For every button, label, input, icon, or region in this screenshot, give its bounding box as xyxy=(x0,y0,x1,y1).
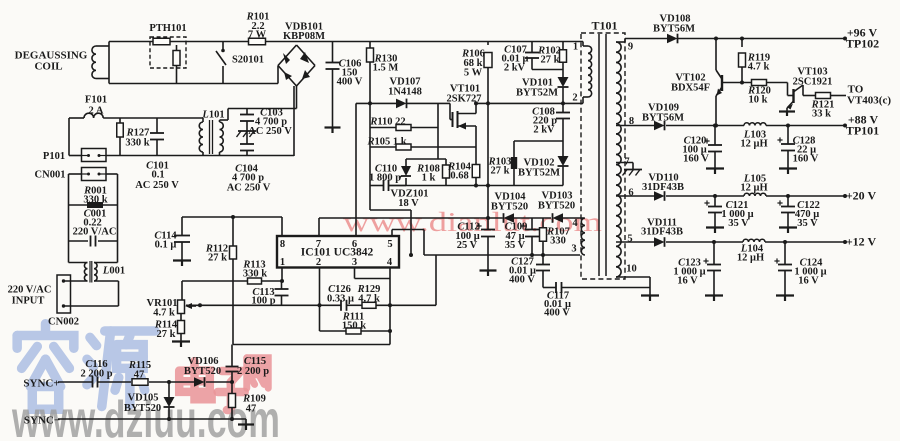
wire L001 bottom-left to CN002 xyxy=(64,280,88,282)
transformer pin9 lead xyxy=(616,41,625,43)
svg-text:330: 330 xyxy=(550,236,566,247)
svg-text:INPUT: INPUT xyxy=(12,296,45,307)
resistor R102 xyxy=(562,42,564,51)
resistor R115 xyxy=(132,379,148,386)
svg-text:BYT56M: BYT56M xyxy=(653,24,695,35)
diode VD103 xyxy=(553,213,564,223)
wire C127 to gnd line xyxy=(543,287,556,289)
svg-text:10: 10 xyxy=(626,264,637,275)
wire C001 to L001 right xyxy=(117,241,119,263)
capacitor C108 xyxy=(562,103,564,112)
svg-text:4: 4 xyxy=(572,218,578,229)
capacitor C127 xyxy=(542,255,544,265)
mosfet VT101 xyxy=(449,103,451,119)
wire to VT403 xyxy=(803,95,816,97)
svg-text:27 k: 27 k xyxy=(491,166,510,177)
resistor R121 xyxy=(816,93,831,99)
diode VD104 xyxy=(504,213,515,223)
svg-text:16 V: 16 V xyxy=(677,276,698,287)
wire R111 box xyxy=(320,330,347,332)
connector P101 xyxy=(82,149,107,162)
degaussing coil xyxy=(92,46,96,79)
diode VD102 xyxy=(562,141,564,156)
svg-text:P101: P101 xyxy=(43,151,65,162)
wire source rail xyxy=(389,185,564,187)
svg-text:7: 7 xyxy=(624,157,629,168)
wire bridge bottom xyxy=(296,86,298,109)
transformer pin7 lead xyxy=(616,162,633,164)
wire pin5 jog xyxy=(391,230,393,237)
wire VD107 line xyxy=(356,102,396,104)
transformer L001 xyxy=(84,263,87,282)
svg-text:6: 6 xyxy=(352,239,357,250)
wire CN001 right xyxy=(106,173,118,175)
svg-text:18 V: 18 V xyxy=(398,198,419,209)
svg-text:5: 5 xyxy=(387,239,392,250)
wire P101 left lead xyxy=(69,155,82,157)
capacitor C126 xyxy=(340,300,342,311)
svg-text:BYT520: BYT520 xyxy=(184,366,221,377)
connector CN002 xyxy=(57,275,71,313)
inductor L103 xyxy=(744,123,766,126)
svg-text:1: 1 xyxy=(573,42,578,53)
svg-text:AC 250 V: AC 250 V xyxy=(227,183,271,194)
wire sync minus line xyxy=(58,418,246,420)
capacitor C123 xyxy=(713,242,715,265)
wire +96 rail xyxy=(625,38,667,40)
svg-text:KBP08M: KBP08M xyxy=(283,31,325,42)
svg-text:BYT52M: BYT52M xyxy=(518,168,560,179)
svg-text:AC 250 V: AC 250 V xyxy=(135,180,179,191)
resistor R001 xyxy=(69,204,118,206)
watermark dian pink xyxy=(179,361,211,399)
wire C001 to L001 left xyxy=(68,241,70,263)
capacitor C116 xyxy=(92,377,94,388)
svg-text:CN002: CN002 xyxy=(48,317,79,328)
svg-text:5 W: 5 W xyxy=(464,68,483,79)
resistor R103 xyxy=(513,141,515,157)
svg-text:COIL: COIL xyxy=(34,61,62,73)
svg-text:CN001: CN001 xyxy=(35,170,66,181)
wire +12 rail xyxy=(616,241,654,243)
capacitor C112 xyxy=(486,216,490,220)
svg-text:9: 9 xyxy=(628,42,633,53)
svg-text:10 k: 10 k xyxy=(749,95,768,106)
svg-text:35 V: 35 V xyxy=(728,218,749,229)
capacitor C107 xyxy=(531,42,533,53)
choke L101 xyxy=(199,122,203,152)
svg-text:4.7 k: 4.7 k xyxy=(748,62,770,73)
transformer core xyxy=(598,34,600,276)
wire bridge left vertex xyxy=(277,66,279,84)
resistor R105 xyxy=(370,146,396,148)
svg-text:1: 1 xyxy=(280,257,285,268)
box around VDZ101 R108 xyxy=(406,158,446,160)
svg-text:2: 2 xyxy=(316,257,321,268)
capacitor C122 xyxy=(787,196,789,207)
wire R113 line xyxy=(182,280,248,282)
resistor R127 xyxy=(119,118,121,123)
wire +88 rail xyxy=(616,125,654,127)
transformer T101 dashed box xyxy=(581,33,625,279)
wire gate node vertical xyxy=(437,103,439,159)
svg-text:8: 8 xyxy=(280,239,285,250)
ic U1 IC101 UC3842 box xyxy=(277,236,399,268)
svg-text:31DF43B: 31DF43B xyxy=(642,182,684,193)
svg-text:VD105: VD105 xyxy=(128,393,159,404)
capacitor C109 xyxy=(531,218,533,230)
svg-text:400 V: 400 V xyxy=(337,77,363,88)
ground VT103 emitter xyxy=(779,110,795,112)
wire L001 bottom-right loop xyxy=(94,280,119,282)
wire pin4 lead xyxy=(389,268,391,345)
capacitor C114 xyxy=(181,217,183,236)
capacitor C106 xyxy=(332,42,334,63)
svg-text:BYT520: BYT520 xyxy=(491,202,528,213)
resistor R114 xyxy=(180,314,182,321)
diode VD109 xyxy=(654,121,665,131)
svg-text:35 V: 35 V xyxy=(797,218,818,229)
svg-text:0.68: 0.68 xyxy=(450,171,468,182)
svg-text:2 200 p: 2 200 p xyxy=(80,369,112,380)
capacitor C120 xyxy=(714,126,716,146)
svg-text:3: 3 xyxy=(571,244,576,255)
svg-text:27 k: 27 k xyxy=(208,253,227,264)
svg-text:2: 2 xyxy=(572,93,577,104)
transistor VT102 xyxy=(715,39,717,71)
wire bottom AC rail xyxy=(109,83,278,85)
transformer feedback winding xyxy=(581,218,585,255)
wire VDZ bottom link xyxy=(370,209,411,211)
wire snubber bottom xyxy=(532,69,563,71)
watermark wang pink xyxy=(247,358,268,388)
wire feedback line xyxy=(186,304,341,306)
svg-text:VT403(c): VT403(c) xyxy=(847,95,891,107)
svg-text:27 k: 27 k xyxy=(157,329,176,340)
diode VD111 xyxy=(654,237,665,247)
wire drain to pin2 xyxy=(476,102,583,104)
svg-text:1 k: 1 k xyxy=(422,173,436,184)
svg-text:S20101: S20101 xyxy=(232,55,264,66)
resistor R111 xyxy=(346,328,361,334)
svg-text:1.5 M: 1.5 M xyxy=(373,63,399,74)
inductor L105 xyxy=(744,193,766,196)
capacitor C113 xyxy=(281,281,283,289)
thermistor PTH101 xyxy=(150,37,186,68)
wire CN001 left xyxy=(69,173,82,175)
capacitor C104 xyxy=(240,143,254,145)
svg-text:TP101: TP101 xyxy=(846,124,879,138)
svg-text:0.1 μ: 0.1 μ xyxy=(155,240,177,251)
resistor R129 xyxy=(362,302,376,308)
chassis ground between C103 C104 xyxy=(238,130,256,132)
potentiometer VR101 xyxy=(181,281,183,300)
svg-text:BDX54F: BDX54F xyxy=(671,83,710,94)
svg-text:2 kV: 2 kV xyxy=(504,63,526,74)
svg-text:1N4148: 1N4148 xyxy=(388,87,422,98)
svg-text:400 V: 400 V xyxy=(509,275,535,286)
wire sync plus line xyxy=(58,381,93,383)
wire node to IC pin6 xyxy=(355,103,357,236)
transformer secondary winding xyxy=(616,42,621,277)
wire trafo pin3 line xyxy=(424,254,580,256)
svg-text:31DF43B: 31DF43B xyxy=(641,227,683,238)
svg-text:BYT56M: BYT56M xyxy=(642,113,684,124)
svg-text:L001: L001 xyxy=(102,266,125,277)
svg-text:0.1: 0.1 xyxy=(151,170,164,181)
capacitor C001 xyxy=(69,240,89,242)
diode VD107 xyxy=(396,99,407,109)
resistor R130 xyxy=(369,42,371,49)
resistor R120 xyxy=(752,80,767,86)
svg-text:4.7 k: 4.7 k xyxy=(153,308,175,319)
wire vcc top line xyxy=(182,216,282,218)
connector CN001 xyxy=(82,168,107,181)
wire fuse line xyxy=(69,117,84,119)
svg-text:SYNC+: SYNC+ xyxy=(23,378,59,390)
resistor R106 xyxy=(487,42,489,46)
wire long mid line xyxy=(233,344,390,346)
wire feedback rectifier line xyxy=(319,217,503,219)
wire fuse to P101 xyxy=(68,118,70,156)
svg-text:5: 5 xyxy=(627,234,632,245)
svg-text:12 μH: 12 μH xyxy=(737,253,764,264)
svg-text:TP102: TP102 xyxy=(846,37,879,51)
svg-text:IC101 UC3842: IC101 UC3842 xyxy=(301,247,374,259)
capacitor C103 xyxy=(246,109,248,115)
bridge VDB101 xyxy=(278,45,297,66)
svg-text:SYNC−: SYNC− xyxy=(24,415,60,427)
wire pin7 lead xyxy=(318,218,320,236)
svg-text:1 800 p: 1 800 p xyxy=(369,173,401,184)
fuse F101 xyxy=(84,113,103,118)
resistor R110 xyxy=(370,127,396,129)
resistor R101 xyxy=(249,38,266,45)
resistor R108 xyxy=(443,165,450,178)
resistor R104 xyxy=(472,165,480,178)
svg-text:12 μH: 12 μH xyxy=(740,183,767,194)
zener VDZ101 xyxy=(401,166,411,176)
wire pin3 lead xyxy=(354,268,356,279)
watermark yuan blue xyxy=(87,331,155,407)
svg-text:+12 V: +12 V xyxy=(846,235,877,249)
svg-text:33 k: 33 k xyxy=(812,109,831,120)
resistor R107 xyxy=(542,218,544,228)
capacitor C101 xyxy=(156,118,158,133)
wire top AC rail xyxy=(109,41,583,43)
svg-text:6: 6 xyxy=(628,188,633,199)
wire lower AC line xyxy=(106,155,294,157)
transformer primary winding xyxy=(582,42,584,47)
svg-text:35 V: 35 V xyxy=(505,240,526,251)
transformer pin10 lead xyxy=(616,276,650,278)
svg-text:PTH101: PTH101 xyxy=(149,23,186,34)
svg-text:F101: F101 xyxy=(85,95,107,106)
svg-text:220 V/AC: 220 V/AC xyxy=(73,227,117,238)
wire L101 to bridge xyxy=(228,108,294,110)
svg-text:4: 4 xyxy=(387,257,393,268)
diode VD105 xyxy=(168,382,170,397)
resistor R119 xyxy=(741,39,743,48)
resistor R109 xyxy=(231,382,233,393)
svg-text:BYT52M: BYT52M xyxy=(516,88,558,99)
wire +20 rail xyxy=(616,195,654,197)
box R103 VD102 top xyxy=(514,140,563,142)
watermark rong blue xyxy=(17,324,74,410)
svg-text:2SC1921: 2SC1921 xyxy=(793,77,833,88)
diode VD108 xyxy=(667,34,678,44)
ground sync minus xyxy=(245,419,247,424)
svg-text:BYT520: BYT520 xyxy=(538,201,575,212)
diode VD101 xyxy=(562,70,564,78)
resistor R113 xyxy=(248,278,262,284)
diode VD106 xyxy=(194,377,205,387)
capacitor C110 xyxy=(370,185,383,187)
svg-text:220 V/AC: 220 V/AC xyxy=(8,285,52,296)
svg-text:47: 47 xyxy=(246,404,257,415)
svg-text:160 V: 160 V xyxy=(793,154,819,165)
svg-text:27 k: 27 k xyxy=(541,55,560,66)
wire VT102 base line xyxy=(723,82,752,84)
svg-text:2 kV: 2 kV xyxy=(533,125,555,136)
inductor L104 xyxy=(743,239,765,242)
wire pin2 lead xyxy=(319,268,321,331)
svg-text:400 V: 400 V xyxy=(544,308,570,319)
capacitor C128 xyxy=(787,126,789,145)
wire pin8 lead xyxy=(281,217,283,236)
svg-text:BYT520: BYT520 xyxy=(124,403,161,414)
svg-text:25 V: 25 V xyxy=(457,240,478,251)
wire pin1 lead xyxy=(281,268,283,281)
transistor VT103 xyxy=(787,83,789,96)
svg-text:T101: T101 xyxy=(591,19,617,33)
svg-text:330 k: 330 k xyxy=(125,138,149,149)
svg-text:2 200 p: 2 200 p xyxy=(237,366,269,377)
capacitor C117 xyxy=(555,282,557,293)
svg-text:L101: L101 xyxy=(201,110,224,121)
svg-text:3: 3 xyxy=(352,257,357,268)
diode VD110 xyxy=(654,191,665,201)
svg-text:12 μH: 12 μH xyxy=(740,139,767,150)
svg-text:7: 7 xyxy=(316,239,321,250)
svg-text:160 V: 160 V xyxy=(683,154,709,165)
resistor R112 xyxy=(232,217,234,246)
switch S20101 xyxy=(222,42,224,50)
capacitor C115 xyxy=(231,345,233,367)
chassis ground pin7 xyxy=(624,169,642,171)
capacitor C121 xyxy=(714,196,716,207)
svg-text:16 V: 16 V xyxy=(798,276,819,287)
watermark zi pink xyxy=(218,371,245,410)
svg-text:+20 V: +20 V xyxy=(846,189,877,203)
capacitor C124 xyxy=(784,242,786,265)
